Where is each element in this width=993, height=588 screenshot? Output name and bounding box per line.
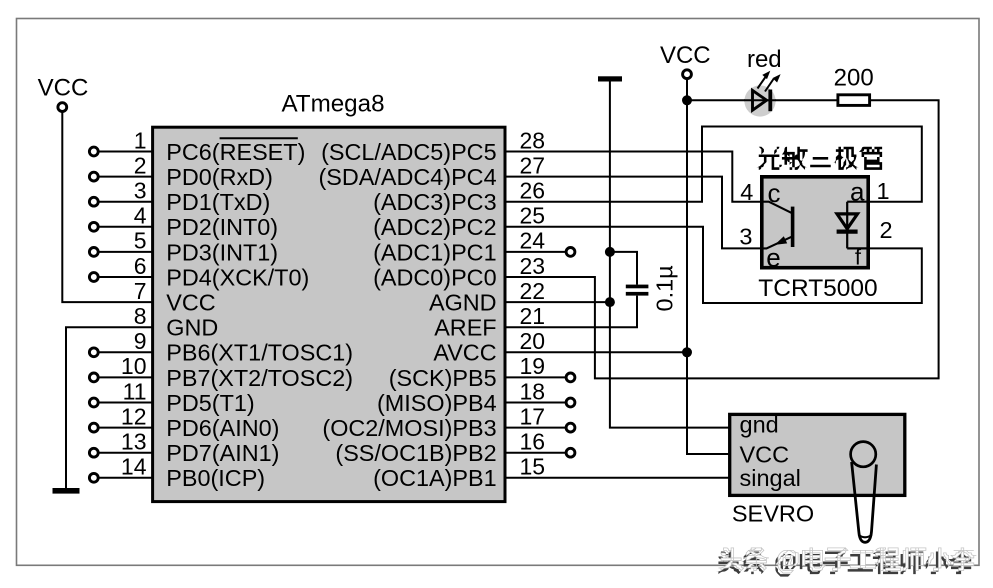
capacitor C1 plates bbox=[626, 285, 649, 289]
TCRT5000 title CJK guangmin sanjiguan bbox=[756, 147, 782, 170]
resistor R1 body bbox=[838, 95, 870, 106]
servo horn circle bbox=[851, 442, 876, 467]
ground symbol bottom-left bbox=[53, 488, 80, 494]
svg-text:28: 28 bbox=[520, 127, 546, 153]
svg-text:(OC2/MOSI)PB3: (OC2/MOSI)PB3 bbox=[322, 415, 496, 441]
pin 10 wire (n.c.) bbox=[99, 376, 153, 378]
wire VCC to pin 7 bbox=[62, 112, 152, 303]
pin 14 wire (n.c.) bbox=[99, 477, 153, 479]
svg-text:27: 27 bbox=[520, 152, 546, 178]
svg-text:2: 2 bbox=[880, 217, 893, 243]
svg-text:singal: singal bbox=[740, 465, 801, 491]
svg-text:PD7(AIN1): PD7(AIN1) bbox=[166, 440, 279, 466]
wire pin 15 to SEVRO singal bbox=[504, 477, 730, 479]
RESET overline bbox=[220, 137, 298, 139]
svg-text:13: 13 bbox=[121, 429, 147, 455]
pin 6 wire (n.c.) bbox=[99, 276, 153, 278]
svg-text:18: 18 bbox=[520, 378, 546, 404]
svg-text:17: 17 bbox=[520, 403, 546, 429]
svg-text:AVCC: AVCC bbox=[433, 340, 496, 366]
svg-text:3: 3 bbox=[739, 224, 752, 250]
LED D1 emission arrows bbox=[758, 71, 781, 92]
svg-text:(SCL/ADC5)PC5: (SCL/ADC5)PC5 bbox=[321, 139, 496, 165]
pin 17 wire (n.c.) bbox=[504, 427, 566, 429]
LED D1 triangle bbox=[753, 90, 767, 110]
svg-text:4: 4 bbox=[740, 179, 753, 205]
svg-text:200: 200 bbox=[834, 65, 874, 92]
svg-text:PD0(RxD): PD0(RxD) bbox=[166, 164, 273, 190]
svg-text:PD2(INT0): PD2(INT0) bbox=[166, 214, 278, 240]
svg-text:21: 21 bbox=[520, 303, 546, 329]
svg-text:(MISO)PB4: (MISO)PB4 bbox=[377, 390, 497, 416]
IC U1 inner pin labels bbox=[166, 139, 496, 491]
pin 9 wire (n.c.) bbox=[99, 351, 153, 353]
wire pin 21 AREF to capacitor bbox=[504, 296, 637, 328]
TCRT5000 U2 body bbox=[762, 177, 868, 268]
junction dot ground/cap bbox=[605, 247, 615, 257]
pin 24 wire (n.c.) bbox=[504, 251, 566, 253]
svg-text:SEVRO: SEVRO bbox=[732, 501, 814, 527]
svg-text:(SCK)PB5: (SCK)PB5 bbox=[389, 365, 497, 391]
wire pin 22 AGND to ground rail bbox=[504, 301, 610, 303]
svg-text:22: 22 bbox=[520, 278, 546, 304]
svg-text:VCC: VCC bbox=[38, 74, 89, 101]
svg-text:1: 1 bbox=[877, 178, 890, 204]
svg-text:24: 24 bbox=[520, 228, 546, 254]
svg-text:GND: GND bbox=[166, 315, 218, 341]
svg-text:6: 6 bbox=[134, 253, 147, 279]
wire pin 26 to TCRT a(1) bbox=[504, 127, 922, 202]
svg-text:VCC: VCC bbox=[166, 290, 215, 316]
svg-text:AGND: AGND bbox=[429, 290, 497, 316]
IR diode D2 inside TCRT bbox=[847, 202, 868, 249]
svg-text:ATmega8: ATmega8 bbox=[281, 90, 384, 117]
wire pin 28 to TCRT c(4) bbox=[504, 152, 760, 202]
svg-text:2: 2 bbox=[134, 152, 147, 178]
pin 13 wire (n.c.) bbox=[99, 452, 153, 454]
wire VCC to LED bbox=[687, 99, 838, 101]
svg-text:(OC1A)PB1: (OC1A)PB1 bbox=[373, 465, 497, 491]
svg-text:PB6(XT1/TOSC1): PB6(XT1/TOSC1) bbox=[166, 340, 353, 366]
phototransistor Q1 inside TCRT bbox=[791, 207, 795, 247]
servo horn tip line bbox=[858, 535, 871, 538]
pin 1 wire (n.c.) bbox=[99, 151, 153, 153]
pin 12 wire (n.c.) bbox=[99, 427, 153, 429]
svg-text:(ADC3)PC3: (ADC3)PC3 bbox=[373, 189, 496, 215]
svg-text:PD6(AIN0): PD6(AIN0) bbox=[166, 415, 279, 441]
pin 16 wire (n.c.) bbox=[504, 452, 566, 454]
svg-text:9: 9 bbox=[134, 328, 147, 354]
ground rail wire down to SEVRO gnd bbox=[610, 82, 730, 428]
servo horn arm bbox=[852, 462, 877, 542]
svg-text:PD3(INT1): PD3(INT1) bbox=[166, 239, 278, 265]
pin 4 wire (n.c.) bbox=[99, 226, 153, 228]
svg-text:11: 11 bbox=[123, 378, 147, 404]
junction dot VCC/LED bbox=[682, 95, 692, 105]
pin 19 wire (n.c.) bbox=[504, 376, 566, 378]
svg-text:3: 3 bbox=[134, 178, 147, 204]
junction dot ground/AGND bbox=[605, 297, 615, 307]
svg-text:0.1µ: 0.1µ bbox=[652, 265, 678, 311]
svg-text:PD5(T1): PD5(T1) bbox=[166, 390, 254, 416]
wire ground tap to cap top bbox=[610, 252, 637, 285]
pin 18 wire (n.c.) bbox=[504, 402, 566, 404]
pin 3 wire (n.c.) bbox=[99, 201, 153, 203]
svg-text:PD4(XCK/T0): PD4(XCK/T0) bbox=[166, 264, 309, 290]
svg-text:VCC: VCC bbox=[660, 42, 711, 69]
svg-text:25: 25 bbox=[520, 203, 546, 229]
emitter arrowhead bbox=[775, 236, 788, 245]
wire pin 27 to TCRT e(3) bbox=[504, 177, 760, 249]
IC U1 ATmega8 body bbox=[153, 127, 505, 501]
wire pin 8 to ground bbox=[66, 327, 153, 488]
svg-text:15: 15 bbox=[520, 454, 546, 480]
LED D1 halo bbox=[744, 85, 775, 116]
svg-text:AREF: AREF bbox=[434, 315, 496, 341]
svg-text:(SDA/ADC4)PC4: (SDA/ADC4)PC4 bbox=[319, 164, 497, 190]
svg-text:PD1(TxD): PD1(TxD) bbox=[166, 189, 270, 215]
svg-text:(SS/OC1B)PB2: (SS/OC1B)PB2 bbox=[335, 440, 496, 466]
svg-text:TCRT5000: TCRT5000 bbox=[758, 275, 877, 302]
ground symbol top bbox=[598, 76, 622, 81]
svg-text:(ADC0)PC0: (ADC0)PC0 bbox=[373, 264, 496, 290]
svg-text:16: 16 bbox=[520, 429, 546, 455]
svg-text:26: 26 bbox=[520, 178, 546, 204]
junction dot VCC/AVCC bbox=[682, 347, 692, 357]
svg-text:red: red bbox=[747, 46, 782, 73]
svg-text:23: 23 bbox=[520, 253, 546, 279]
servo M1 body bbox=[730, 414, 905, 495]
watermark toutiao bbox=[716, 551, 741, 574]
svg-text:5: 5 bbox=[134, 228, 147, 254]
wire pin 23 to resistor loop bbox=[504, 100, 939, 378]
svg-text:(ADC2)PC2: (ADC2)PC2 bbox=[373, 214, 496, 240]
svg-text:8: 8 bbox=[134, 303, 147, 329]
pin 5 wire (n.c.) bbox=[99, 251, 153, 253]
svg-text:VCC: VCC bbox=[740, 441, 790, 467]
svg-text:7: 7 bbox=[134, 278, 147, 304]
svg-text:PC6(RESET): PC6(RESET) bbox=[166, 139, 305, 165]
wire through LED bbox=[744, 99, 776, 101]
wire pin 25 to TCRT f(2) bbox=[504, 227, 922, 303]
wire pin 20 AVCC to VCC rail bbox=[504, 351, 687, 353]
svg-text:20: 20 bbox=[520, 328, 546, 354]
svg-text:14: 14 bbox=[121, 454, 147, 480]
LED D1 cathode bar bbox=[768, 90, 772, 112]
pin 11 wire (n.c.) bbox=[99, 402, 153, 404]
pin 2 wire (n.c.) bbox=[99, 176, 153, 178]
svg-text:12: 12 bbox=[121, 403, 147, 429]
svg-text:19: 19 bbox=[520, 353, 546, 379]
VCC rail wire down to SEVRO VCC bbox=[687, 79, 730, 454]
svg-text:PB0(ICP): PB0(ICP) bbox=[166, 465, 265, 491]
svg-text:1: 1 bbox=[134, 127, 147, 153]
svg-text:(ADC1)PC1: (ADC1)PC1 bbox=[373, 239, 496, 265]
svg-text:gnd: gnd bbox=[740, 411, 779, 437]
svg-text:PB7(XT2/TOSC2): PB7(XT2/TOSC2) bbox=[166, 365, 353, 391]
svg-text:10: 10 bbox=[121, 353, 147, 379]
svg-text:4: 4 bbox=[134, 203, 147, 229]
